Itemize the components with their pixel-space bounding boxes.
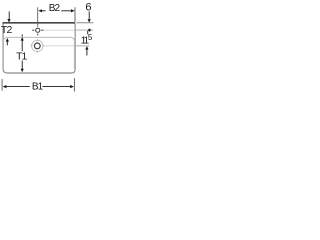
top edge right extension line (76, 22, 93, 24)
washbasin outer outline (3, 23, 75, 73)
drain center horizontal extension line (43, 45, 74, 47)
drain outer circle (32, 40, 43, 51)
T2 bottom arrow (up onto shelf line) (6, 38, 9, 45)
B1 left extension line (1, 79, 3, 91)
B1 dimension line right part with arrow (42, 85, 74, 88)
6 dimension diamond end marker (88, 28, 91, 31)
T1 dimension line upper stem and up arrow at shelf (21, 34, 24, 51)
drain crosshair ticks (31, 39, 44, 52)
svg-text:5: 5 (88, 33, 93, 42)
bowl shelf line (3, 37, 74, 69)
B2 left extension line (through tap hole) (37, 7, 39, 27)
svg-text:6: 6 (85, 2, 91, 14)
tap hole center horizontal extension line (43, 29, 74, 31)
svg-text:T2: T2 (1, 24, 13, 36)
B1 right extension line (73, 78, 75, 91)
svg-text:B1: B1 (32, 82, 44, 93)
tap hole left tick (32, 29, 34, 31)
6 dimension down arrow (88, 12, 91, 23)
B1 dimension line left part with arrow (3, 85, 30, 88)
B2 right extension line (74, 7, 76, 22)
T2 top arrow (down onto top edge) (7, 11, 10, 22)
11.5 dimension up arrow (85, 46, 88, 56)
B2 dimension line right part with arrow (61, 9, 74, 12)
tap hole right tick (41, 29, 43, 31)
tap hole (36, 28, 40, 32)
drain inner circle (34, 43, 40, 49)
svg-text:B2: B2 (49, 3, 61, 14)
B2 dimension line left part with arrow (38, 9, 45, 12)
stem from diamond down to 11.5 label (87, 31, 89, 34)
T1 down arrow onto bottom edge (21, 61, 24, 73)
basin top (back) edge, darker (3, 22, 75, 24)
tap hole bottom tick (37, 34, 39, 36)
